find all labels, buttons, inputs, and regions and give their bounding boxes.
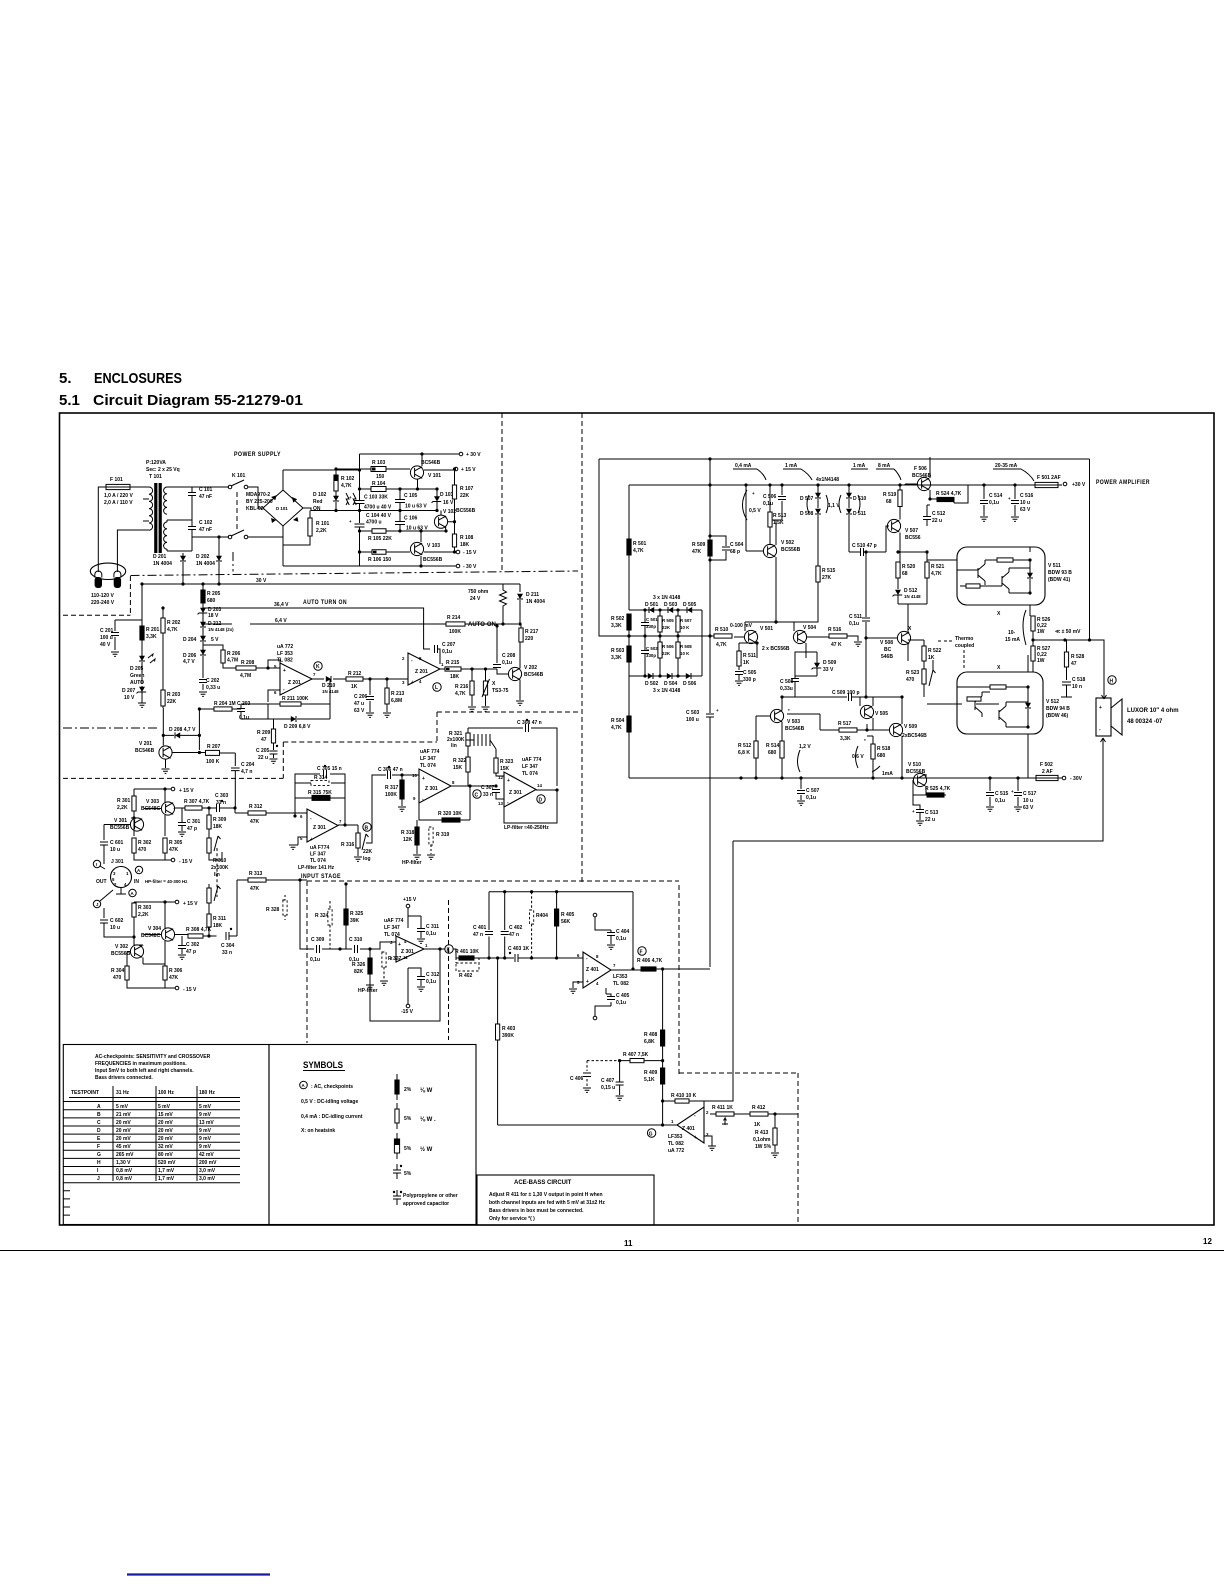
svg-text:10-: 10- bbox=[1008, 630, 1016, 636]
capacitor C301 bbox=[178, 823, 186, 826]
svg-text:220-240 V: 220-240 V bbox=[91, 600, 115, 606]
-15V terminal bbox=[406, 1004, 410, 1008]
svg-text:R 328: R 328 bbox=[266, 907, 280, 913]
testpoint table box bbox=[63, 1045, 269, 1225]
thermistor X TS3-75 bbox=[483, 681, 487, 695]
svg-text:both channel inputs are fe: both channel inputs are fed with 5 mV at… bbox=[489, 1200, 605, 1206]
svg-text:R 504: R 504 bbox=[611, 718, 625, 724]
capacitor C208 bbox=[493, 665, 501, 668]
svg-text:C 106: C 106 bbox=[404, 516, 418, 522]
resistor R319 dashed bbox=[429, 827, 433, 845]
svg-text:47K: 47K bbox=[169, 975, 179, 981]
svg-text:approved capacitor: approved capacitor bbox=[403, 1201, 449, 1207]
svg-text:11: 11 bbox=[624, 1239, 633, 1248]
legend 5% capacitor bbox=[393, 1170, 401, 1173]
svg-text:1K: 1K bbox=[928, 655, 935, 661]
svg-text:4,7M: 4,7M bbox=[227, 658, 238, 664]
diode D204 bbox=[200, 636, 206, 641]
wire secondary to C101 stack bbox=[167, 487, 192, 551]
svg-text:265 mV: 265 mV bbox=[116, 1152, 134, 1158]
svg-text:C 304: C 304 bbox=[221, 943, 235, 949]
svg-text:10 u: 10 u bbox=[1020, 500, 1030, 506]
svg-text:*: * bbox=[864, 738, 866, 743]
svg-text:R 308 4,7K: R 308 4,7K bbox=[186, 927, 212, 933]
svg-text:0,1u: 0,1u bbox=[989, 500, 999, 506]
svg-text:D 506: D 506 bbox=[683, 681, 697, 687]
svg-text:12K: 12K bbox=[403, 837, 413, 843]
capacitor C106 bbox=[399, 511, 401, 532]
svg-text:+: + bbox=[1011, 789, 1014, 794]
svg-text:IN: IN bbox=[134, 879, 139, 885]
svg-text:V 504: V 504 bbox=[803, 625, 816, 631]
svg-text:R 412: R 412 bbox=[752, 1105, 766, 1111]
svg-text:R 106 150: R 106 150 bbox=[368, 557, 391, 563]
svg-text:BC548C: BC548C bbox=[141, 933, 161, 939]
svg-text:C 105: C 105 bbox=[404, 493, 418, 499]
svg-text:R 107: R 107 bbox=[460, 486, 474, 492]
svg-text:C 505: C 505 bbox=[743, 670, 757, 676]
top rail of 400 block bbox=[489, 891, 633, 893]
main filter column bbox=[359, 454, 361, 566]
svg-text:C 207: C 207 bbox=[442, 642, 456, 648]
svg-text:D 503: D 503 bbox=[664, 602, 678, 608]
svg-text:10 u: 10 u bbox=[1023, 798, 1033, 804]
svg-text:R 525 4,7K: R 525 4,7K bbox=[925, 786, 951, 792]
svg-text:ON: ON bbox=[313, 506, 321, 512]
svg-text:I: I bbox=[96, 862, 97, 867]
svg-text:T 101: T 101 bbox=[149, 474, 162, 480]
checkpoint B bbox=[363, 823, 371, 831]
svg-text:18K: 18K bbox=[213, 923, 223, 929]
svg-text:HP-filter = 40-300 Hz: HP-filter = 40-300 Hz bbox=[145, 879, 188, 884]
svg-text:15 mA: 15 mA bbox=[1005, 637, 1020, 643]
svg-text:HP-filter: HP-filter bbox=[358, 988, 378, 994]
op-amp Z401 F bbox=[583, 952, 611, 988]
resistor R413 bbox=[773, 1128, 777, 1145]
svg-text:ENCLOSURES: ENCLOSURES bbox=[94, 370, 182, 387]
resistor R312 bbox=[248, 811, 266, 815]
resistor R302 bbox=[132, 838, 136, 853]
transistor V302 bbox=[130, 945, 143, 958]
svg-text:470: 470 bbox=[113, 975, 122, 981]
svg-text:R 202: R 202 bbox=[167, 620, 181, 626]
svg-text:LF 347: LF 347 bbox=[522, 764, 538, 770]
svg-text:D 204: D 204 bbox=[183, 637, 197, 643]
capacitor C302 bbox=[178, 946, 186, 949]
potentiometer R316 bbox=[338, 825, 358, 833]
svg-text:D 511: D 511 bbox=[853, 511, 866, 517]
feedback node to C305 bbox=[295, 774, 345, 825]
resistor R523 bbox=[922, 669, 926, 684]
resistor R304 bbox=[125, 966, 129, 980]
svg-text:40 V: 40 V bbox=[100, 642, 111, 648]
op-amp Z301 B bbox=[307, 809, 338, 842]
svg-text:10: 10 bbox=[412, 773, 417, 778]
op-amp Z301 C bbox=[419, 769, 451, 803]
svg-text:13: 13 bbox=[498, 801, 503, 806]
capacitor C309 bbox=[317, 945, 320, 953]
svg-text:R 505: R 505 bbox=[662, 618, 674, 623]
svg-text:30 V: 30 V bbox=[256, 578, 267, 584]
svg-text:0,8 mV: 0,8 mV bbox=[116, 1176, 133, 1182]
resistor R522 bbox=[922, 646, 926, 661]
speaker return wire bbox=[733, 748, 1103, 841]
module V512 diode bbox=[1025, 703, 1031, 708]
svg-text:0-100 mV: 0-100 mV bbox=[730, 623, 753, 629]
svg-text:C 602: C 602 bbox=[110, 918, 124, 924]
svg-text:Z 301: Z 301 bbox=[401, 949, 414, 955]
resistor R106 bbox=[372, 550, 386, 555]
resistor R512 bbox=[754, 741, 758, 758]
svg-text:Red: Red bbox=[313, 499, 322, 505]
svg-text:V 303: V 303 bbox=[146, 799, 159, 805]
svg-text:V 302: V 302 bbox=[115, 944, 128, 950]
op-amp Z201 L bbox=[408, 653, 440, 685]
svg-text:100K: 100K bbox=[449, 629, 461, 635]
svg-text:D 208 4,7 V: D 208 4,7 V bbox=[169, 727, 196, 733]
svg-text:D 101: D 101 bbox=[276, 506, 288, 511]
potentiometer R310 upper gang bbox=[207, 838, 211, 853]
svg-text:C 309: C 309 bbox=[311, 937, 325, 943]
resistor R213 bbox=[385, 688, 389, 704]
capacitor C207 bbox=[435, 645, 438, 653]
svg-text:V 511: V 511 bbox=[1048, 563, 1061, 569]
svg-text:0,5 V : DC-idling voltage: 0,5 V : DC-idling voltage bbox=[301, 1099, 358, 1105]
svg-text:1N 4004: 1N 4004 bbox=[153, 561, 172, 567]
resistor R311 bbox=[207, 914, 211, 927]
E block dashed enclosure bbox=[307, 881, 798, 1222]
svg-text:C: C bbox=[97, 1120, 101, 1126]
svg-text:3,3K: 3,3K bbox=[611, 655, 622, 661]
resistor R514 bbox=[780, 741, 784, 758]
svg-text:D: D bbox=[539, 798, 543, 804]
resistor R513 bbox=[768, 512, 772, 527]
capacitor C304 bbox=[226, 932, 229, 940]
R105 row bbox=[360, 530, 447, 532]
svg-text:R 322: R 322 bbox=[453, 758, 467, 764]
G output wire bbox=[498, 1124, 677, 1126]
svg-text:C 511: C 511 bbox=[849, 614, 862, 620]
svg-text:470: 470 bbox=[906, 677, 915, 683]
transistor V501 bbox=[744, 630, 757, 643]
svg-text:20 mV: 20 mV bbox=[158, 1136, 173, 1142]
svg-text:47 K: 47 K bbox=[831, 642, 842, 648]
svg-text:10 u 63 V: 10 u 63 V bbox=[405, 504, 427, 510]
svg-text:10 K: 10 K bbox=[680, 651, 690, 656]
svg-text:V 509: V 509 bbox=[904, 724, 917, 730]
svg-text:C 306 47 n: C 306 47 n bbox=[378, 767, 403, 773]
capacitor C308 bbox=[468, 728, 557, 786]
svg-text:R 216: R 216 bbox=[455, 684, 469, 690]
svg-text:68: 68 bbox=[902, 571, 908, 577]
svg-text:20 mV: 20 mV bbox=[116, 1136, 131, 1142]
svg-text:13 mV: 13 mV bbox=[199, 1120, 214, 1126]
svg-text:C 205: C 205 bbox=[256, 748, 270, 754]
resistor R527 bbox=[1031, 646, 1035, 661]
svg-text:R 507: R 507 bbox=[680, 618, 692, 623]
svg-text:C 516: C 516 bbox=[1020, 493, 1034, 499]
svg-text:1,7 mV: 1,7 mV bbox=[158, 1176, 175, 1182]
svg-text:110-120 V: 110-120 V bbox=[91, 593, 114, 599]
svg-text:2,2K: 2,2K bbox=[316, 528, 327, 534]
bridge rectifier D101 bbox=[263, 490, 303, 526]
svg-text:63 V: 63 V bbox=[354, 708, 365, 714]
svg-text:C 509 100 p: C 509 100 p bbox=[832, 690, 860, 696]
svg-text:Z 201: Z 201 bbox=[288, 680, 301, 686]
svg-text:C 501: C 501 bbox=[646, 617, 658, 622]
darlington module V511 bbox=[957, 547, 1045, 605]
svg-text:R 217: R 217 bbox=[525, 629, 539, 635]
svg-text:R 316: R 316 bbox=[341, 842, 355, 848]
svg-text:4700 u 40 V: 4700 u 40 V bbox=[364, 505, 392, 511]
capacitor C601 bbox=[100, 842, 108, 845]
-15V terminal bbox=[171, 858, 175, 862]
svg-text:9 mV: 9 mV bbox=[199, 1144, 212, 1150]
svg-text:20 mV: 20 mV bbox=[158, 1128, 173, 1134]
svg-text:0,1u: 0,1u bbox=[426, 979, 436, 985]
+30V rail bbox=[360, 453, 460, 455]
svg-text:LF 353: LF 353 bbox=[277, 651, 293, 657]
svg-text:D 102: D 102 bbox=[313, 492, 327, 498]
resistor R214 bbox=[446, 622, 465, 626]
resistor R108 bbox=[452, 534, 456, 547]
svg-text:5 V: 5 V bbox=[211, 637, 219, 643]
svg-text:4,7K: 4,7K bbox=[167, 627, 178, 633]
svg-text:R 303: R 303 bbox=[138, 905, 152, 911]
svg-text:R 320 10K: R 320 10K bbox=[438, 811, 462, 817]
svg-text:R 513: R 513 bbox=[773, 513, 787, 519]
mid rail bbox=[303, 508, 438, 511]
svg-text:R 302: R 302 bbox=[138, 840, 152, 846]
svg-text:R 205: R 205 bbox=[207, 591, 221, 597]
svg-text:0,1u: 0,1u bbox=[849, 621, 859, 627]
svg-text:22K: 22K bbox=[662, 625, 671, 630]
resistor R315 bbox=[312, 795, 330, 800]
+15V terminal lower bbox=[175, 900, 179, 904]
svg-text:BC556B: BC556B bbox=[423, 557, 443, 563]
resistor R516 bbox=[829, 634, 847, 638]
svg-text:Green: Green bbox=[130, 673, 144, 679]
svg-text:uAF 774: uAF 774 bbox=[384, 918, 404, 924]
zener D203 bbox=[198, 608, 208, 615]
svg-text:R 326: R 326 bbox=[352, 962, 366, 968]
svg-text:4,7K: 4,7K bbox=[931, 571, 942, 577]
resistor R102 bbox=[335, 469, 337, 475]
svg-text:Thermo: Thermo bbox=[955, 636, 973, 642]
svg-text:R 306: R 306 bbox=[169, 968, 183, 974]
legend 2% resistor bbox=[395, 1080, 399, 1094]
svg-text:R 411 1K: R 411 1K bbox=[712, 1105, 733, 1111]
transistor V101 bbox=[410, 466, 423, 479]
resistor R504 bbox=[627, 716, 631, 732]
svg-text:22 u: 22 u bbox=[925, 817, 935, 823]
svg-text:680: 680 bbox=[877, 753, 886, 759]
svg-text:47 p: 47 p bbox=[186, 949, 196, 955]
svg-text:6,8 K: 6,8 K bbox=[738, 750, 750, 756]
svg-text:BC556B: BC556B bbox=[906, 769, 926, 775]
svg-text:R 312: R 312 bbox=[249, 804, 263, 810]
svg-text:R 407 7,5K: R 407 7,5K bbox=[623, 1052, 649, 1058]
svg-text:TS3-75: TS3-75 bbox=[492, 688, 509, 694]
PA top rail bbox=[599, 459, 1090, 640]
svg-text:R 304: R 304 bbox=[111, 968, 125, 974]
svg-text:V 503: V 503 bbox=[787, 719, 800, 725]
svg-text:1,30 V: 1,30 V bbox=[116, 1160, 131, 1166]
svg-text:R 517: R 517 bbox=[838, 721, 852, 727]
flash marks bbox=[346, 493, 356, 505]
svg-text:80 mV: 80 mV bbox=[158, 1152, 173, 1158]
capacitor C602 bbox=[100, 920, 108, 923]
outer feedback edge bbox=[599, 459, 629, 636]
svg-text:B: B bbox=[365, 826, 369, 832]
svg-text:R 209: R 209 bbox=[257, 730, 271, 736]
module V511 connections bbox=[927, 547, 1030, 616]
resistor R519 bbox=[898, 490, 902, 507]
resistor R313 bbox=[248, 878, 266, 882]
svg-text:R 101: R 101 bbox=[316, 521, 330, 527]
svg-text:1N 4004: 1N 4004 bbox=[526, 599, 545, 605]
svg-text:H: H bbox=[1110, 679, 1114, 685]
svg-text:uAF 774: uAF 774 bbox=[420, 749, 440, 755]
svg-text:R 413: R 413 bbox=[755, 1130, 769, 1136]
svg-text:0,1u: 0,1u bbox=[995, 798, 1005, 804]
svg-text:18K: 18K bbox=[450, 674, 460, 680]
zener D509 bbox=[812, 663, 822, 670]
wire secondary top to switch K101 bbox=[192, 486, 229, 488]
svg-text:16 V: 16 V bbox=[443, 500, 454, 506]
capacitor C204 bbox=[231, 768, 240, 771]
svg-text:3 x 1N 4148: 3 x 1N 4148 bbox=[653, 595, 680, 601]
svg-text:1K: 1K bbox=[754, 1122, 761, 1128]
resistor R412 bbox=[750, 1112, 768, 1116]
wire secondary bottom to switch pole2 bbox=[192, 537, 229, 551]
svg-text:C 104 40 V: C 104 40 V bbox=[366, 513, 392, 519]
svg-text:4,7M: 4,7M bbox=[240, 673, 251, 679]
svg-text:D 504: D 504 bbox=[664, 681, 678, 687]
svg-text:D: D bbox=[97, 1128, 101, 1134]
svg-text:Z 301: Z 301 bbox=[313, 825, 326, 831]
transistor V201 bbox=[159, 746, 172, 759]
svg-text:TESTPOINT: TESTPOINT bbox=[71, 1090, 99, 1096]
svg-text:27K: 27K bbox=[822, 575, 832, 581]
resistor R403 bbox=[496, 1024, 500, 1040]
svg-text:R 502: R 502 bbox=[611, 616, 625, 622]
resistor R401 bbox=[459, 956, 474, 960]
svg-text:R 506: R 506 bbox=[662, 644, 674, 649]
potentiometer R310 lower gang bbox=[207, 888, 211, 903]
capacitor C101 bbox=[191, 487, 193, 520]
+15V row bbox=[336, 469, 454, 470]
svg-text:R 512: R 512 bbox=[738, 743, 752, 749]
resistor R205 bbox=[201, 590, 205, 603]
svg-text:56K: 56K bbox=[561, 919, 571, 925]
svg-text:R 215: R 215 bbox=[446, 660, 460, 666]
svg-text:330p: 330p bbox=[646, 624, 656, 629]
svg-text:D 211: D 211 bbox=[526, 592, 539, 598]
svg-text:Input 5mV to both left an: Input 5mV to both left and right channel… bbox=[95, 1068, 194, 1074]
svg-text:HP-filter: HP-filter bbox=[402, 860, 422, 866]
svg-text:22K: 22K bbox=[662, 651, 671, 656]
resistor R509 bbox=[708, 540, 712, 556]
svg-text:0,1u: 0,1u bbox=[763, 501, 773, 507]
wire fuse to primary bbox=[130, 486, 149, 488]
svg-text:4,7K: 4,7K bbox=[633, 548, 644, 554]
transistor V505 bbox=[860, 705, 873, 718]
checkpoint D bbox=[537, 795, 545, 803]
diode D212 bbox=[200, 622, 206, 627]
svg-text:3,0 mV: 3,0 mV bbox=[199, 1168, 216, 1174]
svg-text:R 325: R 325 bbox=[350, 911, 364, 917]
speaker feed wire bbox=[1033, 640, 1104, 692]
legend half watt resistor bbox=[394, 1139, 399, 1153]
svg-text:47 n: 47 n bbox=[509, 932, 519, 938]
diode D507 bbox=[815, 493, 821, 498]
svg-text:47 n: 47 n bbox=[473, 932, 483, 938]
svg-text:C 208: C 208 bbox=[502, 653, 516, 659]
diode matrix bottom bbox=[629, 610, 702, 676]
svg-text:BC: BC bbox=[884, 647, 892, 653]
svg-text:1 mA: 1 mA bbox=[785, 463, 798, 469]
svg-text:R 319: R 319 bbox=[436, 832, 450, 838]
wire plug to primary bottom bbox=[117, 530, 149, 572]
module V512 internals bbox=[990, 685, 1006, 689]
svg-text:47: 47 bbox=[261, 737, 267, 743]
svg-text:+: + bbox=[912, 809, 915, 814]
PA bottom rail bbox=[629, 777, 1036, 779]
svg-text:1N 4148 (2x): 1N 4148 (2x) bbox=[208, 627, 234, 632]
svg-text:3,3K: 3,3K bbox=[840, 736, 851, 742]
wire switch to bridge bbox=[248, 487, 263, 508]
svg-text:- 30V: - 30V bbox=[1070, 776, 1083, 782]
transistor V509 bbox=[889, 723, 902, 736]
svg-text:R 206: R 206 bbox=[227, 651, 241, 657]
svg-text:4,7K: 4,7K bbox=[611, 725, 622, 731]
resistor R322 bbox=[466, 757, 470, 772]
svg-text:R 528: R 528 bbox=[1071, 654, 1085, 660]
svg-text:20 mV: 20 mV bbox=[116, 1128, 131, 1134]
checkpoint G bbox=[647, 1129, 655, 1137]
svg-text:31 Hz: 31 Hz bbox=[116, 1090, 130, 1096]
opamp E feedback loop bbox=[370, 949, 445, 1021]
svg-text:1W: 1W bbox=[1037, 658, 1045, 664]
svg-text:R 313: R 313 bbox=[249, 871, 263, 877]
svg-text:V 507: V 507 bbox=[905, 528, 918, 534]
resistor R404 dashed bbox=[530, 910, 534, 924]
svg-text:750 ohm: 750 ohm bbox=[468, 589, 489, 595]
capacitor C305 bbox=[324, 770, 327, 778]
svg-text:5,1K: 5,1K bbox=[644, 1077, 655, 1083]
svg-text:R 408: R 408 bbox=[644, 1032, 658, 1038]
svg-text:F 501 2AF: F 501 2AF bbox=[1037, 475, 1061, 481]
svg-text:V 101: V 101 bbox=[428, 473, 441, 479]
legend 5% resistor bbox=[395, 1109, 399, 1123]
svg-text:R 323: R 323 bbox=[500, 759, 514, 765]
svg-text:V 505: V 505 bbox=[875, 711, 888, 717]
svg-text:D 205: D 205 bbox=[130, 666, 144, 672]
svg-text:0,8 mV: 0,8 mV bbox=[116, 1168, 133, 1174]
transistor V202 bbox=[508, 667, 521, 680]
svg-text:C 517: C 517 bbox=[1023, 791, 1037, 797]
svg-text:+: + bbox=[507, 778, 510, 784]
svg-text:63 V: 63 V bbox=[1023, 805, 1034, 811]
resistor R303 bbox=[132, 903, 136, 917]
svg-text:C 305 15 n: C 305 15 n bbox=[317, 766, 342, 772]
svg-text:C 406: C 406 bbox=[570, 1076, 584, 1082]
speaker arrow top bbox=[1102, 692, 1107, 699]
svg-text:18K: 18K bbox=[460, 542, 470, 548]
svg-text:3,3K: 3,3K bbox=[146, 634, 157, 640]
svg-text:39K: 39K bbox=[350, 918, 360, 924]
